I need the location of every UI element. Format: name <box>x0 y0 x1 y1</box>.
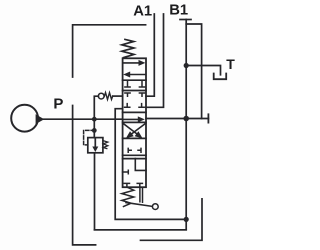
valve internal edge 6 <box>123 154 146 156</box>
valve main spring (top) <box>122 39 134 57</box>
side stub in bottom section <box>123 170 129 173</box>
wire A1 second service line <box>146 14 164 107</box>
svg-text:P: P <box>53 95 63 112</box>
svg-text:A1: A1 <box>133 4 152 20</box>
wire check valve to valve body <box>113 95 123 97</box>
svg-text:B1: B1 <box>169 3 188 19</box>
wire B1 riser <box>95 20 187 230</box>
node junction dot carryover <box>183 116 189 122</box>
plugged port end cap <box>207 114 209 122</box>
valve arrow left (position 1) <box>130 74 146 76</box>
wire top-left carryover line <box>73 25 146 77</box>
side port stubs row D <box>128 148 141 152</box>
valve internal edge 2 <box>123 90 146 92</box>
wire B1 jog to right riser <box>186 24 201 119</box>
tank T symbol <box>214 74 227 80</box>
wire A1 service line <box>146 14 154 96</box>
blocked port stubs row B <box>125 93 145 96</box>
wire check-valve branch <box>94 96 98 137</box>
node junction dot bottom gallery <box>184 217 189 222</box>
valve crossed arrows (position 3) <box>129 123 146 136</box>
node B1 port cap <box>180 19 191 21</box>
relief valve RV1 body <box>88 138 103 153</box>
wire P line <box>44 118 123 120</box>
valve internal edge 4 <box>123 121 146 123</box>
node junction dot pilot tap <box>92 128 97 133</box>
wire tank branch <box>186 66 220 75</box>
valve return spring (bottom) <box>122 188 134 207</box>
blocked port stubs row A <box>125 81 145 87</box>
pilot line (dashed) to relief valve <box>84 130 95 145</box>
valve internal edge 3 <box>123 111 146 113</box>
wire outer-left tank line <box>73 106 96 245</box>
lever handle ball <box>152 204 158 210</box>
blocked port stubs row E <box>124 183 142 187</box>
valve body outline <box>123 58 146 187</box>
blocked port stubs row C <box>125 104 145 108</box>
sub-box in bottom section <box>135 159 146 171</box>
wire plugged carryover port <box>146 118 208 120</box>
valve internal edge 5 <box>123 137 146 139</box>
valve internal edge 7 <box>123 158 146 160</box>
valve P arrow (position 2) <box>123 118 138 120</box>
relief valve RV1 spring <box>103 141 108 149</box>
wire bypass gallery line <box>115 109 186 220</box>
check valve V1 spring <box>104 93 112 100</box>
pump flow triangle <box>36 114 45 124</box>
lever arm <box>126 203 152 207</box>
valve internal edge 1 <box>123 79 146 81</box>
valve arrow right (position 1) <box>123 62 139 64</box>
wire bottom-right tank stub <box>141 199 203 241</box>
node junction dot on P line <box>92 117 97 122</box>
wire relief valve drain <box>95 153 187 230</box>
pump P1 <box>11 105 38 132</box>
svg-text:T: T <box>226 56 235 72</box>
relief valve RV1 flow arrow <box>94 138 96 147</box>
check valve V1 ball <box>98 93 104 99</box>
node junction dot tank branch <box>184 63 189 68</box>
lever push rods <box>140 187 143 202</box>
